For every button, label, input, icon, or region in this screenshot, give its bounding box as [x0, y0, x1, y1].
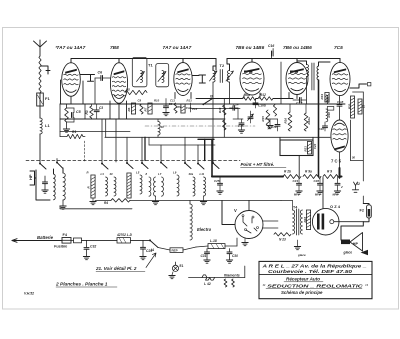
svg-text:×: ×: [56, 45, 58, 49]
switch contact S8: [212, 162, 219, 169]
svg-text:V: V: [234, 208, 237, 213]
svg-text:2 Planches . Planche 1: 2 Planches . Planche 1: [55, 282, 108, 288]
coil row L10: [193, 177, 195, 196]
svg-text:C16: C16: [268, 44, 274, 48]
label 50 right: [352, 156, 356, 160]
riser x161: [160, 145, 162, 163]
winding T4 left: [293, 210, 295, 234]
OZ4 cathode circle: [330, 220, 334, 224]
wire y160 right: [351, 160, 364, 162]
thick 7C5 drop: [339, 168, 341, 177]
label C5: [76, 110, 82, 114]
svg-text:O Z 4: O Z 4: [330, 204, 341, 209]
core T3: [312, 63, 314, 90]
svg-text:C 18: C 18: [337, 100, 344, 104]
choke L.18 rect: [208, 244, 225, 249]
svg-text:C9: C9: [138, 99, 142, 103]
svg-text:R16a: R16a: [307, 117, 311, 125]
svg-text:C32: C32: [90, 245, 96, 249]
label F2: [360, 209, 364, 213]
label 40a: [188, 172, 194, 176]
label R13: [187, 99, 193, 103]
wire F1 to L1: [39, 106, 41, 118]
capacitor C30 to ground: [226, 249, 232, 264]
speaker voice coil: [341, 240, 350, 245]
label C31: [201, 254, 207, 258]
wire coil tops: [54, 168, 64, 174]
bus y108.6: [190, 108, 240, 110]
label R8a: [244, 93, 250, 97]
vibrator contacts: [242, 215, 259, 234]
tube V5 7B6 AF amp: [286, 63, 308, 95]
wire V1 bottom pin: [70, 96, 72, 104]
wire F2 to OZ4 node: [363, 218, 369, 222]
thick HT line: [212, 176, 342, 178]
wire R1 ends: [60, 136, 85, 138]
coil row L7: [154, 177, 156, 196]
title line 2: [268, 269, 353, 274]
label I4: [151, 248, 154, 252]
svg-text:7B8: 7B8: [110, 45, 119, 51]
ground row 2: [152, 196, 158, 205]
label L3: [101, 172, 105, 176]
component R17 coil: [326, 95, 331, 104]
OZ4 anode bars: [317, 214, 324, 230]
svg-text:R10: R10: [154, 99, 160, 103]
bus y131.5: [60, 131, 130, 133]
filament riser: [244, 266, 246, 278]
label point HT: [241, 162, 287, 167]
wire battery feed with arrow: [12, 239, 62, 243]
resistor R5 below T1: [125, 88, 147, 95]
label V vibrator: [234, 208, 237, 213]
svg-text:7B6 ou 14B6: 7B6 ou 14B6: [236, 45, 265, 51]
wire left coils to bus: [36, 170, 60, 209]
svg-text:C12: C12: [192, 107, 198, 111]
resistor R19 boxed: [320, 93, 329, 103]
wire right column vertical: [353, 92, 364, 204]
coil row L8: [162, 177, 164, 196]
ground vibrator: [242, 239, 248, 246]
label tube V1 7A7: [57, 45, 86, 51]
wire down to speaker: [341, 222, 363, 240]
svg-text:C25: C25: [214, 179, 220, 183]
svg-text:R 9a: R 9a: [305, 170, 312, 174]
wire V3 left pin: [174, 93, 176, 99]
svg-text:F2: F2: [360, 209, 364, 213]
label L7: [158, 172, 162, 176]
svg-text:10: 10: [161, 125, 165, 129]
label glace: [343, 251, 353, 255]
svg-text:C30: C30: [232, 254, 238, 258]
capacitor C24 to ground: [293, 177, 303, 195]
svg-text:7 C 5: 7 C 5: [331, 159, 342, 164]
label 7C5 lower: [331, 159, 342, 164]
resistor R4: [104, 199, 130, 206]
svg-text:R19: R19: [320, 94, 324, 100]
variable winding T1 right: [158, 71, 166, 83]
riser x116: [115, 119, 117, 162]
label C22: [313, 143, 317, 149]
wire top bus V2 to V3: [119, 58, 183, 60]
filter box: [280, 140, 313, 156]
label L1: [45, 123, 50, 128]
resistor R12b vertical: [273, 105, 276, 117]
capacitor C27 to ground: [334, 177, 343, 195]
shield box T1 right: [156, 64, 169, 87]
svg-text:L.18: L.18: [210, 239, 217, 243]
wire battery to F4: [55, 240, 62, 242]
svg-text:Point + HT filtré.: Point + HT filtré.: [241, 162, 275, 167]
svg-text:R7: R7: [144, 107, 148, 111]
wire T2 right drop: [229, 82, 231, 104]
wire V3 plate drop: [182, 59, 184, 63]
wire vibrator to T4: [263, 221, 278, 228]
coil L2b: [63, 173, 65, 200]
tube V1 7A7 RF amp: [62, 63, 81, 97]
switch contact S1a: [39, 163, 46, 170]
capacitor C3: [94, 104, 103, 119]
svg-text:C26: C26: [314, 179, 320, 183]
note planches: [55, 282, 117, 288]
svg-text:Fusible: Fusible: [54, 245, 67, 249]
capacitor C31 to ground: [204, 249, 210, 264]
component R18 coil: [326, 109, 331, 122]
label 8: [146, 172, 148, 176]
wire L1 down to switch: [39, 134, 41, 163]
label C30: [232, 254, 238, 258]
svg-text:50: 50: [352, 156, 356, 160]
resistor R8a on bus: [243, 97, 257, 101]
svg-text:F1: F1: [45, 96, 50, 101]
svg-text:R5: R5: [126, 88, 130, 92]
svg-text:Electro: Electro: [197, 227, 212, 232]
label C6: [98, 71, 104, 75]
capacitor C10a: [253, 99, 258, 109]
switch contact S3: [126, 162, 133, 169]
fuse holder second element: [71, 238, 82, 243]
wire switch riser x57: [56, 159, 58, 163]
box REP: [170, 248, 183, 253]
wire REP to L18: [183, 246, 208, 250]
wire V2 plate to top bus: [118, 59, 120, 63]
label C11: [170, 99, 175, 103]
bus y145: [149, 144, 215, 146]
capacitor C16 above bus: [272, 49, 274, 59]
svg-text:C20: C20: [319, 127, 325, 131]
fuse F2: [363, 204, 371, 219]
wire top bus V4 to V5: [252, 59, 297, 63]
svg-text:Schéma de principe: Schéma de principe: [281, 290, 323, 295]
svg-text:HP: HP: [28, 174, 33, 180]
capacitor C25 to ground: [214, 177, 223, 195]
coil row L5: [140, 175, 142, 194]
antenna lead-in twisted line: [39, 56, 41, 93]
wire box around left coils: [36, 170, 50, 200]
label HP left side: [28, 174, 33, 180]
svg-text:L7: L7: [158, 172, 162, 176]
title line 3: [284, 277, 323, 282]
wire R2 top: [66, 104, 68, 108]
label L11: [200, 172, 205, 176]
riser x149: [148, 137, 150, 145]
wire V2 bottom pin: [118, 103, 120, 119]
wire R3 ends: [91, 104, 93, 119]
label C32: [90, 245, 96, 249]
riser x190: [190, 103, 192, 112]
tube V3 7A7 IF amp: [174, 63, 192, 96]
label Fusible: [54, 245, 67, 249]
dashed line chassis: [26, 160, 240, 162]
winding T2 right: [226, 71, 234, 83]
title block box: [259, 261, 372, 298]
label mfd2: [315, 193, 321, 197]
wire T3 left drop: [306, 77, 308, 105]
wire vibrator top: [248, 201, 250, 211]
wire R16 top: [290, 104, 306, 113]
coil row L3: [106, 177, 108, 196]
wire T3 right to 7C5 grid: [319, 62, 331, 66]
tube V4 7B6 detector: [240, 62, 264, 95]
label tube V4 7B6: [236, 45, 265, 51]
resistor row boxed 2: [127, 173, 131, 198]
svg-text:7B6 ou 14B6: 7B6 ou 14B6: [283, 45, 312, 51]
svg-text:R3: R3: [85, 110, 89, 114]
label mfd1: [294, 193, 300, 197]
coil osc grid: [140, 104, 143, 114]
component C10 box: [181, 104, 192, 113]
wire V1 right pin: [82, 81, 84, 104]
svg-text:L5: L5: [136, 171, 140, 175]
thick drop x212: [211, 139, 213, 176]
label REP: [172, 248, 178, 252]
label C9: [138, 99, 142, 103]
ground mid x270: [265, 119, 278, 129]
label mfd3: [333, 193, 339, 197]
svg-text:E1: E1: [180, 264, 184, 268]
resistor R1: [67, 130, 83, 139]
label L.D: [116, 233, 133, 237]
svg-text:T2: T2: [220, 63, 225, 68]
label T2: [220, 63, 225, 68]
wire T2 top left: [213, 59, 216, 71]
label filaments: [224, 274, 240, 278]
cursive mark above title box: [297, 253, 306, 257]
svg-text:R1: R1: [72, 130, 76, 134]
wire T2 left drop: [212, 82, 214, 99]
label Batterie: [37, 235, 54, 240]
note arrow to detail: [146, 253, 156, 268]
fuse F1: [37, 93, 44, 106]
riser x102: [101, 119, 103, 163]
riser x198: [197, 145, 199, 164]
title block divider: [259, 273, 372, 275]
dashed riser tuning: [84, 141, 86, 162]
resistor R21 in box: [304, 142, 312, 155]
resistor R7b: [174, 103, 182, 113]
resistor R22 boxed: [303, 210, 311, 230]
wire 7C5a to right column: [350, 83, 371, 89]
svg-text:filaments: filaments: [224, 274, 240, 278]
fuse F4: [62, 238, 71, 244]
tube V6 7C5 output: [330, 62, 350, 95]
resistor R14: [218, 105, 226, 115]
label C10a: [258, 104, 266, 108]
riser x281: [280, 62, 282, 104]
dash-dot tuning link: [145, 125, 255, 127]
resistor R7 boxed: [144, 103, 153, 114]
wire L18 to vibrator: [225, 238, 237, 246]
wire V3 right pin: [190, 93, 192, 99]
wire T2 top right: [227, 59, 230, 71]
capacitor C29 to ground: [140, 240, 146, 259]
svg-text:V.H.52: V.H.52: [24, 292, 34, 296]
capacitor C26 to ground: [314, 177, 324, 195]
core T2: [220, 70, 222, 83]
resistor R12 on bus: [258, 97, 273, 101]
ground below L2b: [60, 200, 66, 209]
svg-text:T1: T1: [148, 63, 153, 68]
antenna: [34, 40, 47, 56]
ground T4: [294, 240, 300, 250]
svg-text:R16: R16: [284, 118, 288, 124]
riser x105.7: [105, 119, 107, 137]
svg-text:42702 L.D: 42702 L.D: [116, 233, 133, 237]
label tube V2 7B8: [110, 45, 119, 51]
svg-text:R22: R22: [303, 217, 307, 223]
capacitor C14: [230, 103, 239, 111]
resistor row boxed 1: [87, 175, 96, 198]
title line 1: [261, 264, 367, 269]
wire HP to switch box: [35, 177, 37, 179]
switch contact S6: [184, 162, 191, 169]
bus y104 long: [60, 103, 345, 105]
label F4: [63, 233, 68, 237]
label R below: [87, 171, 89, 175]
svg-text:40a: 40a: [188, 172, 194, 176]
svg-text:C3: C3: [99, 106, 103, 110]
coil row L4: [114, 177, 116, 196]
resistor N23: [274, 233, 291, 242]
wire V1 left pin: [60, 80, 62, 104]
svg-text:C17: C17: [296, 102, 303, 106]
capacitor C8: [163, 99, 173, 116]
resistor R8 lower: [223, 120, 226, 130]
resistor R9a on HT: [303, 170, 321, 179]
winding T3 right: [317, 66, 319, 80]
variable winding T1 left: [137, 71, 145, 83]
label L.18: [210, 239, 217, 243]
svg-text:R12: R12: [260, 93, 266, 97]
small box below C18: [327, 107, 334, 111]
svg-text:7A7 ou 14A7: 7A7 ou 14A7: [57, 45, 86, 51]
bracket HP left: [30, 171, 35, 185]
svg-text:REP: REP: [172, 248, 178, 252]
switch contact S4: [141, 162, 148, 169]
label Electro: [197, 227, 212, 232]
title line 5: [281, 290, 323, 295]
label L9: [173, 171, 177, 175]
resistor R2 cathode: [65, 108, 69, 122]
coil L2 oscillator: [54, 174, 56, 200]
svg-text:C31: C31: [201, 254, 207, 258]
wire top bus to 7C5: [320, 58, 340, 60]
label 40: [109, 172, 114, 176]
label C29: [146, 249, 152, 253]
riser box to HT: [298, 156, 300, 177]
wire top bus V3 to junction: [183, 59, 216, 71]
ground row 3: [200, 196, 206, 205]
filament choke b: [232, 279, 235, 287]
wire V2 left pin: [109, 101, 111, 119]
label T1: [148, 63, 153, 68]
svg-text:L 42: L 42: [204, 282, 211, 286]
label OZ4: [330, 204, 341, 209]
capacitor C1 left: [42, 176, 48, 193]
coil row L11: [204, 177, 206, 196]
wire V2 right pin: [126, 101, 128, 119]
wire V5 left pin: [288, 93, 290, 99]
padder coil below T1: [158, 122, 164, 136]
label T4: [293, 206, 297, 210]
svg-text:Récepteur Auto: Récepteur Auto: [286, 277, 320, 282]
riser x85: [84, 104, 86, 119]
svg-text:HP: HP: [353, 242, 359, 246]
svg-text:C11: C11: [170, 99, 175, 103]
svg-text:C8: C8: [169, 102, 173, 106]
svg-text:R6: R6: [127, 107, 131, 111]
switch contact S7: [197, 163, 204, 170]
wire R2 bottom ground: [63, 122, 69, 132]
wire C14 drop: [233, 108, 243, 119]
svg-text:R18: R18: [327, 112, 331, 118]
switch contact S1b: [56, 162, 63, 169]
switch I2: [352, 182, 360, 192]
label C12: [192, 107, 198, 111]
switch contact S2: [101, 163, 108, 170]
filament choke a: [224, 279, 227, 287]
capacitor coupling bracket at antenna: [41, 66, 50, 74]
capacitor C18: [337, 100, 344, 106]
svg-text:glace: glace: [343, 251, 353, 255]
bus y137.3: [105, 136, 330, 138]
bottom short bus y208.8: [60, 208, 132, 210]
label C17: [296, 102, 303, 106]
core T4: [297, 209, 299, 235]
wire L.D to I4: [131, 239, 151, 241]
coil L1: [40, 118, 42, 134]
label F1: [45, 96, 50, 101]
capacitor C17 coupling: [293, 98, 306, 103]
coil row L6: [149, 177, 151, 196]
riser x185: [184, 137, 186, 163]
svg-text:R 9: R 9: [327, 170, 332, 174]
note voir detail: [95, 266, 145, 272]
resistor R9 on HT: [323, 170, 341, 179]
note V.H.52: [24, 292, 34, 296]
wire battery bus to L.D: [82, 239, 118, 241]
svg-text:C14: C14: [233, 103, 239, 107]
title line 4: [262, 283, 369, 289]
wire V4 drop left: [243, 95, 245, 99]
svg-text:C22: C22: [313, 143, 317, 149]
resistor R20 tall boxed: [348, 96, 355, 118]
wire T3 right drop thick: [318, 80, 320, 177]
thick riser x145: [144, 137, 146, 160]
svg-text:40: 40: [109, 172, 114, 176]
ground below E1: [169, 272, 175, 279]
svg-text:A R E L _ 27 Av. de la Républi: A R E L _ 27 Av. de la République _: [261, 264, 367, 269]
